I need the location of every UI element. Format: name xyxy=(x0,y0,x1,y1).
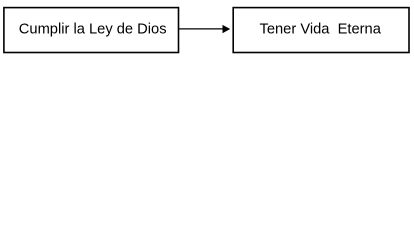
arrowhead xyxy=(223,25,231,33)
svg-text:Tener Vida Eterna: Tener Vida Eterna xyxy=(260,21,382,37)
box B1 "Cumplir la Ley de Dios" xyxy=(4,8,179,53)
box B2 "Tener Vida Eterna" xyxy=(233,8,409,53)
wire arrow shaft B1 to B2 xyxy=(179,28,224,30)
svg-text:Cumplir la Ley de Dios: Cumplir la Ley de Dios xyxy=(19,21,167,37)
